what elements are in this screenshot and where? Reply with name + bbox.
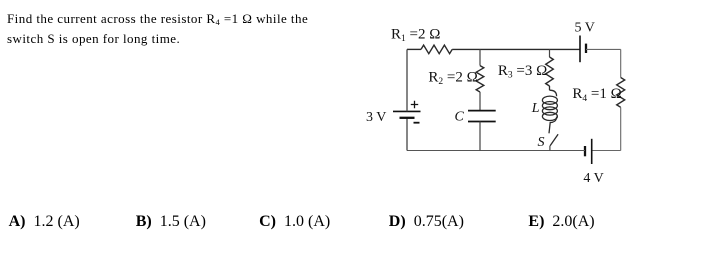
inductor L: exit hook: [549, 117, 557, 134]
svg-text:4 V: 4 V: [583, 171, 603, 186]
inductor L: coil loop 4: [542, 112, 557, 120]
battery 3V: minus sign: [414, 122, 420, 124]
battery 5V: short plate: [585, 44, 587, 53]
wire: left side lower: [406, 118, 408, 151]
switch S: bottom stub: [549, 146, 551, 151]
svg-text:L: L: [531, 101, 540, 116]
resistor R2 (2 ohm, vertical zigzag): [476, 66, 484, 92]
svg-text:R3 =3 Ω: R3 =3 Ω: [498, 63, 547, 81]
wire: right side lower: [620, 107, 622, 150]
wire: R3 branch upper: [549, 49, 551, 57]
svg-text:R2 =2 Ω: R2 =2 Ω: [428, 70, 477, 88]
wire: capacitor to bottom: [479, 122, 481, 151]
inductor L: coil loop 3: [542, 107, 557, 115]
option D: [389, 213, 464, 231]
battery 3V: short plate: [400, 117, 415, 119]
option C: [259, 213, 330, 231]
switch S: blade (open): [550, 134, 558, 146]
resistor R3 (3 ohm, vertical zigzag): [546, 57, 554, 86]
wire: left side upper: [406, 49, 408, 111]
option E: [528, 213, 594, 231]
wire: top middle segment: [452, 48, 580, 50]
capacitor C: top plate: [468, 110, 496, 112]
svg-text:C: C: [455, 109, 465, 124]
battery 5V: long plate: [579, 36, 581, 63]
inductor L: entry hook: [550, 90, 557, 96]
battery 4V: short plate: [584, 146, 586, 156]
wire: top right segment: [586, 48, 621, 50]
battery 4V: long plate: [591, 139, 593, 164]
wire: top-left segment: [407, 48, 421, 50]
battery 3V: plus sign: [411, 101, 418, 108]
wire: bottom segment: [407, 150, 585, 152]
wire: R3 to inductor: [549, 86, 551, 90]
inductor L: coil loop 2: [542, 102, 557, 110]
option A: [9, 213, 80, 231]
wire: right side upper: [620, 49, 622, 77]
option B: [136, 213, 206, 231]
battery 3V: long plate: [393, 110, 421, 112]
capacitor C: bottom plate: [468, 121, 496, 123]
svg-text:R4 =1 Ω: R4 =1 Ω: [572, 86, 621, 104]
wire: R2 branch upper: [479, 49, 481, 65]
resistor R4 (1 ohm, vertical zigzag): [617, 78, 625, 108]
resistor R1 (2 ohm, horizontal zigzag): [421, 45, 452, 54]
question text: [7, 9, 308, 48]
inductor L: coil loop 1: [542, 96, 557, 104]
svg-text:3 V: 3 V: [366, 110, 386, 125]
svg-text:5 V: 5 V: [575, 20, 595, 35]
svg-text:S: S: [538, 135, 545, 150]
wire: bottom right segment: [592, 150, 621, 152]
wire: R2 to capacitor: [479, 92, 481, 111]
svg-text:R1 =2 Ω: R1 =2 Ω: [391, 27, 440, 45]
